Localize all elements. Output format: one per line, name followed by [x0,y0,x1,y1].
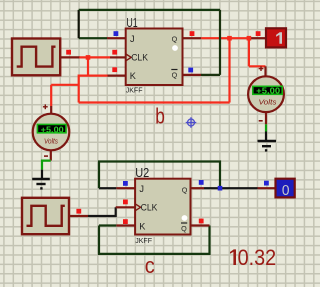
svg-text:0.32: 0.32 [238,245,277,270]
wire VM2 + pin stub [264,66,266,76]
svg-text:0: 0 [282,183,290,199]
pin state square U2 Qbar (red) [199,219,204,224]
svg-text:U1: U1 [126,15,137,30]
junction red Q net right [247,36,252,41]
svg-text:K: K [130,71,137,81]
wire CLK1 output stub [60,56,80,58]
clock generator CLK1 [12,39,60,76]
wire green Qbar horizontal [201,74,220,76]
wire VM2 - pin stub [265,112,267,124]
wire red VM2 horizontal [249,65,266,67]
wire red bottom horizontal [79,101,230,103]
wire green loop left vertical [78,10,80,38]
svg-text:CLK: CLK [131,53,149,63]
svg-text:b: b [155,104,165,129]
junction red at CLK net [86,55,91,60]
pin state square U2 J (blue) [123,181,128,186]
wire black U2 J horizontal [99,187,116,189]
svg-text:J: J [130,34,135,44]
wire red to voltmeter VM1 + [51,84,78,86]
wire U1 Qbar pin stub [183,74,202,76]
wire U2 Q pin stub [191,187,205,189]
wire green U2 bottom loop [99,226,210,254]
wire black U2 Q horizontal [204,187,258,189]
logic probe D2 value 0 [276,179,295,199]
svg-text:Volts: Volts [259,100,278,107]
wire U2 K pin stub [116,224,135,226]
wire probe D1 pin stub [250,37,266,39]
clock generator CLK2 [22,198,69,234]
junction red Q net left [227,36,232,41]
pin state square U1 CLK (red) [112,50,117,55]
pin state square U1 Q (red) [190,31,195,36]
wire green loop top horizontal [79,9,220,11]
svg-text:+5.00: +5.00 [41,124,64,134]
wire green VM1 ground jog [42,161,51,170]
wire VM1 - pin stub [50,150,52,160]
wire U2 J pin stub [116,187,135,189]
wire red K horizontal [79,74,108,76]
pin state square U1 J (blue) [114,31,119,36]
wire black CLK2 to U2 [88,207,116,216]
wire red VM1 vertical [50,85,52,106]
wire black U2 top loop [99,162,220,189]
svg-text:JKFF: JKFF [135,236,152,245]
pin state square probe D1 (red) [256,31,261,36]
pin state square CLK1 out (red) [66,50,71,55]
origin marker [186,117,197,128]
voltmeter VM2 [248,76,284,112]
wire red vertical junction to K wire [87,57,89,75]
wire U1 K pin stub [108,74,126,76]
wire CLK1 to U1 CLK (red net) [79,56,110,58]
pin state square U2 Q (blue) [199,180,204,185]
wire U2 CLK pin stub [116,206,135,208]
label VM1 minus [44,155,48,157]
pin state square CLK2 out (red) [76,209,81,214]
wire green loop right vertical [219,10,221,75]
op U1 JK flip-flop body [126,29,183,86]
wire red Q net horizontal [201,37,250,39]
svg-text:U2: U2 [135,165,149,180]
wire green U2 K horizontal [99,224,116,226]
wire red down to VM2 [248,38,250,66]
svg-text:c: c [145,253,155,278]
wire red vertical left [78,75,80,103]
wire U1 CLK pin stub [110,56,126,58]
voltmeter VM1 [33,114,70,151]
pin state square U1 K (red) [112,67,117,72]
svg-text:CLK: CLK [141,203,159,213]
junction blue U2 Q [218,186,223,191]
wire red right vertical up to Q net [228,38,230,102]
label VM2 minus [259,120,263,122]
svg-text:K: K [139,221,146,231]
svg-text:JKFF: JKFF [126,86,143,95]
logic probe D1 value 1 [266,28,286,47]
wire U2 Qbar pin stub [191,224,210,226]
label 10.32 [230,249,236,265]
wire U1 Q pin stub [183,37,202,39]
label VM2 plus [259,66,264,71]
op U2 JK flip-flop body [135,179,190,235]
pin state square U1 Qbar (blue) [188,68,193,73]
label VM1 plus [43,104,48,109]
wire green VM2 ground segment [265,124,267,131]
pin state square U2 K (red) [123,219,128,224]
ground VM1 [32,170,50,189]
wire U1 J pin stub [107,37,126,39]
wire CLK2 output stub [69,215,88,217]
pin state square U2 CLK (red) [123,200,128,205]
svg-text:Volts: Volts [44,138,58,145]
wire green J horizontal [79,37,107,39]
svg-text:Q: Q [181,224,187,233]
wire VM1 + pin stub [50,106,52,114]
svg-text:Q: Q [172,34,178,43]
svg-text:Q: Q [182,186,188,195]
svg-text:+5.00: +5.00 [256,86,280,96]
pin state square probe D2 (blue) [264,181,269,186]
svg-text:Q: Q [172,70,178,79]
svg-text:J: J [139,184,144,194]
ground VM2 [258,132,277,151]
wire probe D2 pin stub [258,187,276,189]
